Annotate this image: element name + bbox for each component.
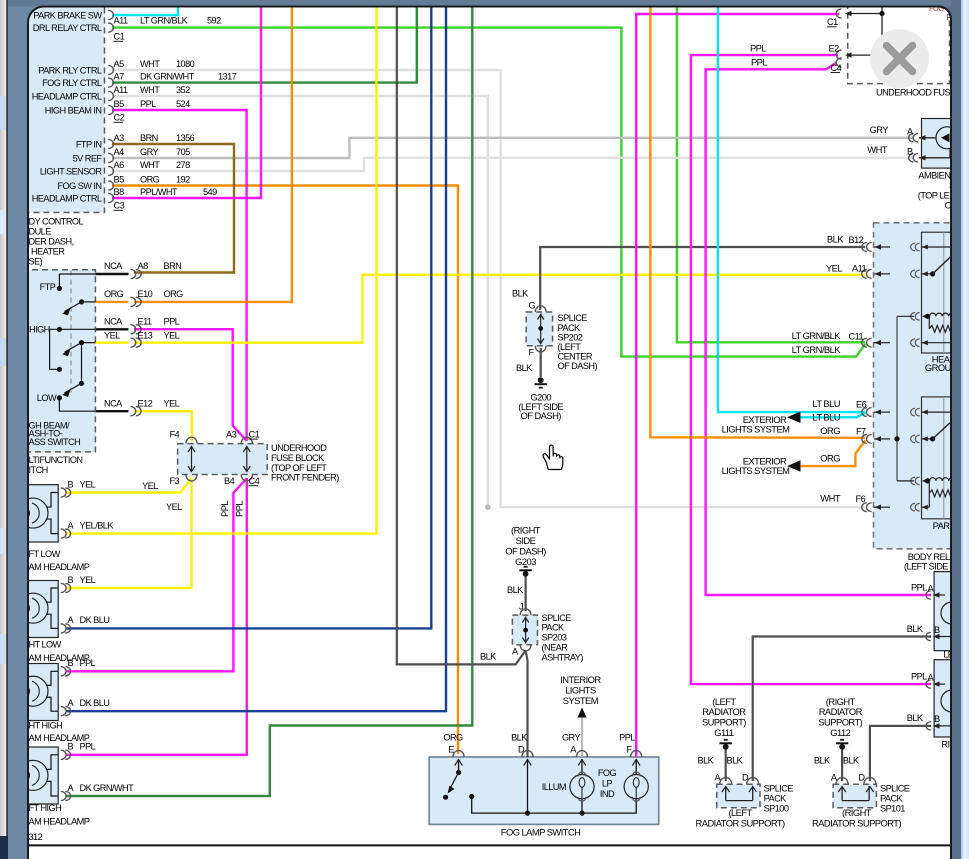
svg-text:B: B bbox=[934, 714, 940, 724]
svg-text:OF DASH): OF DASH) bbox=[558, 361, 598, 371]
svg-text:(TOP OF LEFT: (TOP OF LEFT bbox=[271, 463, 327, 473]
svg-text:AM HEADLAMP: AM HEADLAMP bbox=[29, 653, 90, 663]
svg-text:A7: A7 bbox=[114, 71, 125, 81]
svg-text:LT GRN/BLK: LT GRN/BLK bbox=[140, 15, 189, 25]
svg-text:B5: B5 bbox=[114, 174, 125, 184]
svg-text:A3: A3 bbox=[114, 133, 125, 143]
svg-text:A11: A11 bbox=[114, 85, 128, 95]
svg-text:SPLICE: SPLICE bbox=[558, 313, 588, 323]
svg-text:DK BLU: DK BLU bbox=[80, 615, 110, 625]
svg-text:BLK: BLK bbox=[698, 756, 715, 766]
svg-text:IND: IND bbox=[600, 789, 615, 799]
svg-text:LT BLU: LT BLU bbox=[812, 398, 840, 409]
svg-text:SPLICE: SPLICE bbox=[542, 613, 572, 623]
svg-text:192: 192 bbox=[176, 174, 190, 184]
svg-text:B: B bbox=[934, 625, 940, 635]
svg-text:(LEFT: (LEFT bbox=[558, 342, 582, 352]
svg-text:592: 592 bbox=[207, 15, 221, 25]
svg-text:B12: B12 bbox=[849, 235, 864, 245]
svg-text:LT GRN/BLK: LT GRN/BLK bbox=[792, 344, 842, 355]
svg-text:352: 352 bbox=[176, 85, 190, 95]
svg-text:G112: G112 bbox=[830, 727, 850, 738]
svg-text:UNDERHOOD: UNDERHOOD bbox=[271, 443, 327, 453]
svg-text:DRL RELAY CTRL: DRL RELAY CTRL bbox=[33, 23, 102, 33]
svg-text:SE): SE) bbox=[29, 257, 43, 267]
svg-text:1317: 1317 bbox=[218, 71, 237, 81]
svg-text:1356: 1356 bbox=[176, 133, 195, 143]
svg-text:PPL: PPL bbox=[911, 582, 927, 592]
svg-text:DER DASH,: DER DASH, bbox=[29, 237, 74, 247]
svg-text:ORG: ORG bbox=[104, 289, 124, 299]
svg-text:BLK: BLK bbox=[727, 756, 744, 766]
svg-text:HEADLAMP CTRL: HEADLAMP CTRL bbox=[32, 193, 102, 203]
svg-text:G111: G111 bbox=[714, 727, 734, 738]
svg-text:C4: C4 bbox=[249, 476, 260, 486]
svg-text:PPL: PPL bbox=[750, 43, 766, 54]
svg-text:SYSTEM: SYSTEM bbox=[563, 695, 599, 706]
svg-text:SPLICE: SPLICE bbox=[764, 784, 794, 794]
svg-text:ORG: ORG bbox=[820, 452, 840, 463]
svg-text:A3: A3 bbox=[226, 429, 237, 439]
svg-text:LIGHTS SYSTEM: LIGHTS SYSTEM bbox=[722, 424, 791, 435]
svg-text:G203: G203 bbox=[515, 556, 536, 567]
svg-text:B: B bbox=[907, 146, 913, 156]
svg-text:PACK: PACK bbox=[764, 794, 788, 804]
svg-text:BLK: BLK bbox=[907, 624, 924, 634]
svg-text:E13: E13 bbox=[138, 331, 153, 341]
svg-text:312: 312 bbox=[29, 832, 43, 842]
svg-text:PARK RLY CTRL: PARK RLY CTRL bbox=[38, 65, 102, 75]
svg-text:E: E bbox=[448, 745, 454, 755]
svg-text:ORG: ORG bbox=[820, 425, 840, 436]
svg-text:DK GRN/WHT: DK GRN/WHT bbox=[80, 783, 135, 793]
svg-text:YEL: YEL bbox=[166, 502, 182, 512]
svg-text:FOG RLY CTRL: FOG RLY CTRL bbox=[42, 78, 102, 88]
svg-text:LIGHTS SYSTEM: LIGHTS SYSTEM bbox=[722, 465, 791, 476]
svg-text:(RIGHT: (RIGHT bbox=[511, 524, 541, 535]
svg-text:WHT: WHT bbox=[820, 492, 841, 503]
svg-text:LTIFUNCTION: LTIFUNCTION bbox=[29, 455, 83, 465]
svg-text:SP203: SP203 bbox=[542, 633, 567, 643]
svg-text:A4: A4 bbox=[114, 147, 125, 157]
svg-text:AM HEADLAMP: AM HEADLAMP bbox=[29, 817, 90, 827]
svg-text:BRN: BRN bbox=[164, 261, 182, 271]
svg-text:B: B bbox=[68, 479, 74, 489]
svg-text:LOW: LOW bbox=[37, 393, 57, 403]
svg-text:(NEAR: (NEAR bbox=[542, 643, 569, 653]
svg-text:A11: A11 bbox=[114, 15, 128, 25]
svg-text:ORG: ORG bbox=[443, 733, 463, 743]
svg-text:BLK: BLK bbox=[843, 756, 860, 766]
svg-text:SPLICE: SPLICE bbox=[880, 784, 910, 794]
svg-text:PPL: PPL bbox=[164, 317, 180, 327]
svg-text:GRY: GRY bbox=[562, 733, 581, 743]
svg-text:FOG SW IN: FOG SW IN bbox=[57, 181, 101, 191]
svg-text:RADIATOR SUPPORT): RADIATOR SUPPORT) bbox=[696, 817, 786, 828]
svg-text:A11: A11 bbox=[852, 263, 866, 273]
svg-text:WHT: WHT bbox=[140, 59, 160, 69]
svg-text:AM HEADLAMP: AM HEADLAMP bbox=[29, 562, 90, 572]
svg-text:ILLUM: ILLUM bbox=[542, 782, 566, 792]
svg-text:E11: E11 bbox=[138, 317, 152, 327]
svg-text:C3: C3 bbox=[114, 201, 125, 211]
svg-text:524: 524 bbox=[176, 99, 190, 109]
svg-text:C11: C11 bbox=[849, 331, 864, 341]
svg-text:SIDE: SIDE bbox=[516, 535, 536, 546]
svg-text:A8: A8 bbox=[138, 261, 149, 271]
svg-text:FOG LAMP SWITCH: FOG LAMP SWITCH bbox=[501, 826, 581, 837]
svg-text:C1: C1 bbox=[827, 17, 838, 27]
svg-text:SP100: SP100 bbox=[764, 804, 789, 814]
svg-text:LT BLU: LT BLU bbox=[812, 411, 840, 422]
svg-text:HT HIGH: HT HIGH bbox=[29, 721, 63, 731]
svg-text:B8: B8 bbox=[114, 187, 125, 197]
svg-text:PPL: PPL bbox=[140, 99, 156, 109]
svg-text:J: J bbox=[519, 602, 523, 612]
svg-text:BLK: BLK bbox=[480, 652, 497, 662]
svg-text:FOG: FOG bbox=[598, 768, 617, 778]
svg-text:PACK: PACK bbox=[542, 623, 566, 633]
svg-text:F4: F4 bbox=[170, 429, 180, 439]
svg-text:PPL: PPL bbox=[619, 733, 635, 743]
svg-text:BLK: BLK bbox=[814, 756, 831, 766]
svg-text:D: D bbox=[742, 773, 749, 783]
svg-text:5V REF: 5V REF bbox=[73, 153, 103, 163]
svg-text:ITCH: ITCH bbox=[29, 465, 48, 475]
svg-text:FTP: FTP bbox=[40, 282, 56, 292]
svg-text:GRY: GRY bbox=[870, 124, 890, 135]
svg-text:FT HIGH: FT HIGH bbox=[29, 803, 62, 813]
svg-text:YEL: YEL bbox=[142, 481, 158, 491]
svg-text:HIGH: HIGH bbox=[29, 325, 50, 335]
svg-text:AM HEADLAMP: AM HEADLAMP bbox=[29, 733, 90, 743]
svg-text:YEL/BLK: YEL/BLK bbox=[80, 520, 115, 530]
svg-text:C2: C2 bbox=[114, 113, 125, 123]
svg-text:278: 278 bbox=[176, 160, 190, 170]
svg-text:YEL: YEL bbox=[80, 479, 96, 489]
svg-text:ASS SWITCH: ASS SWITCH bbox=[29, 437, 81, 447]
svg-text:WHT: WHT bbox=[140, 85, 160, 95]
svg-text:E2: E2 bbox=[829, 44, 840, 54]
svg-text:YEL: YEL bbox=[164, 399, 180, 409]
svg-text:BLK: BLK bbox=[511, 733, 528, 743]
svg-text:BLK: BLK bbox=[907, 713, 924, 723]
svg-text:DY CONTROL: DY CONTROL bbox=[29, 217, 84, 227]
svg-text:SP202: SP202 bbox=[558, 332, 583, 342]
svg-text:E10: E10 bbox=[138, 289, 153, 299]
svg-text:WHT: WHT bbox=[140, 160, 160, 170]
svg-text:PPL: PPL bbox=[911, 671, 927, 681]
svg-text:WHT: WHT bbox=[867, 144, 888, 155]
svg-text:NCA: NCA bbox=[104, 261, 123, 271]
svg-text:1080: 1080 bbox=[176, 59, 195, 69]
svg-text:OF DASH): OF DASH) bbox=[520, 410, 561, 421]
svg-text:HIGH BEAM IN: HIGH BEAM IN bbox=[45, 105, 102, 115]
svg-text:ORG: ORG bbox=[164, 289, 184, 299]
svg-text:549: 549 bbox=[203, 187, 217, 197]
svg-text:D: D bbox=[518, 745, 525, 755]
svg-text:OF DASH): OF DASH) bbox=[505, 545, 546, 556]
svg-text:BRN: BRN bbox=[140, 133, 158, 143]
svg-text:A5: A5 bbox=[114, 59, 125, 69]
svg-text:FTP IN: FTP IN bbox=[76, 139, 102, 149]
svg-text:PACK: PACK bbox=[880, 794, 904, 804]
svg-text:YEL: YEL bbox=[826, 262, 842, 273]
svg-text:YEL: YEL bbox=[80, 575, 96, 585]
svg-text:C1: C1 bbox=[249, 429, 260, 439]
svg-text:HEATER: HEATER bbox=[31, 247, 65, 257]
svg-text:YEL: YEL bbox=[164, 331, 180, 341]
svg-text:B5: B5 bbox=[114, 99, 125, 109]
svg-text:A6: A6 bbox=[114, 160, 125, 170]
svg-text:BLK: BLK bbox=[827, 233, 844, 244]
svg-text:HT LOW: HT LOW bbox=[29, 640, 62, 650]
svg-text:F3: F3 bbox=[170, 476, 180, 486]
svg-text:705: 705 bbox=[176, 147, 190, 157]
svg-text:YEL: YEL bbox=[104, 331, 120, 341]
svg-text:LT GRN/BLK: LT GRN/BLK bbox=[792, 330, 842, 341]
svg-text:FT LOW: FT LOW bbox=[29, 549, 61, 559]
svg-text:F6: F6 bbox=[856, 494, 866, 504]
svg-text:FRONT FENDER): FRONT FENDER) bbox=[271, 473, 339, 483]
svg-text:PPL/WHT: PPL/WHT bbox=[140, 187, 178, 197]
svg-text:HEADLAMP CTRL: HEADLAMP CTRL bbox=[32, 91, 102, 101]
svg-text:B: B bbox=[68, 575, 74, 585]
svg-text:RADIATOR SUPPORT): RADIATOR SUPPORT) bbox=[812, 817, 902, 828]
svg-text:LP: LP bbox=[602, 779, 613, 789]
svg-text:PPL: PPL bbox=[234, 501, 245, 517]
svg-text:ORG: ORG bbox=[140, 174, 160, 184]
svg-text:CENTER: CENTER bbox=[558, 352, 593, 362]
svg-text:BLK: BLK bbox=[507, 585, 524, 595]
svg-text:PARK BRAKE SW: PARK BRAKE SW bbox=[33, 10, 102, 20]
svg-text:LIGHT SENSOR: LIGHT SENSOR bbox=[40, 166, 103, 176]
svg-text:GRY: GRY bbox=[140, 147, 159, 157]
svg-text:PACK: PACK bbox=[558, 323, 582, 333]
svg-text:F7: F7 bbox=[856, 426, 866, 436]
svg-text:G: G bbox=[529, 301, 536, 311]
svg-text:C1: C1 bbox=[114, 32, 125, 42]
svg-text:E6: E6 bbox=[856, 399, 867, 409]
svg-text:SP101: SP101 bbox=[880, 804, 905, 814]
svg-text:D: D bbox=[858, 773, 865, 783]
svg-text:DK GRN/WHT: DK GRN/WHT bbox=[140, 71, 195, 81]
svg-text:PPL: PPL bbox=[219, 501, 230, 517]
svg-text:B4: B4 bbox=[224, 476, 235, 486]
svg-text:DK BLU: DK BLU bbox=[80, 698, 110, 708]
svg-text:PPL: PPL bbox=[751, 57, 767, 68]
svg-text:BLK: BLK bbox=[516, 363, 533, 373]
svg-text:NCA: NCA bbox=[104, 317, 123, 327]
svg-text:ASHTRAY): ASHTRAY) bbox=[542, 652, 584, 662]
svg-text:E12: E12 bbox=[138, 399, 153, 409]
svg-text:C4: C4 bbox=[831, 63, 842, 73]
svg-text:BLK: BLK bbox=[512, 289, 529, 299]
svg-text:NCA: NCA bbox=[104, 399, 123, 409]
svg-text:FUSE BLOCK: FUSE BLOCK bbox=[271, 453, 325, 463]
svg-text:DULE: DULE bbox=[29, 227, 52, 237]
